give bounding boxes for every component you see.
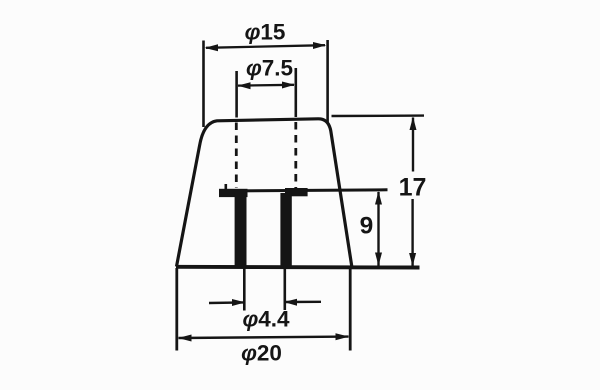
dim 9 arrow top [375, 191, 382, 204]
dim 17 arrow top [410, 117, 417, 130]
dim phi7.5 arrow left [238, 82, 251, 89]
pin wall right (solid post) [280, 193, 291, 266]
hidden hole line left (dashed) [235, 123, 238, 189]
dim phi20 arrow right [336, 333, 350, 340]
svg-text:9: 9 [360, 213, 374, 240]
svg-text:φ15: φ15 [245, 20, 286, 45]
dim phi7.5 line [238, 84, 294, 87]
dim phi4.4 right extension line [283, 268, 286, 310]
dim phi20 right extension line [349, 268, 352, 351]
dim phi20 arrow left [178, 335, 192, 342]
dim phi7.5 arrow right [282, 82, 295, 89]
tick at left cap end [225, 184, 228, 190]
hole top cap thick right [285, 188, 308, 196]
hole top line / extension to 9-dim [219, 190, 388, 191]
baseline [176, 265, 420, 270]
dim 17 line lower segment [411, 199, 413, 266]
svg-text:φ7.5: φ7.5 [246, 56, 293, 81]
dim 9 arrow bottom [375, 253, 382, 266]
dim phi20 line [179, 337, 349, 338]
dim 17 top extension line [332, 114, 425, 117]
dim phi15 line [206, 45, 325, 48]
dim phi4.4 arrow left [232, 299, 245, 306]
dim phi7.5 right extension line [294, 68, 297, 117]
hole top cap thick left [219, 189, 248, 197]
hidden hole line right (dashed) [294, 122, 297, 188]
dim phi15 right extension line [326, 40, 329, 123]
svg-text:17: 17 [399, 174, 427, 202]
dim phi4.4 line left [209, 301, 244, 304]
svg-text:φ4.4: φ4.4 [242, 307, 290, 332]
dim phi4.4 left extension line [243, 268, 246, 311]
pin wall left (solid post) [235, 193, 247, 266]
dim phi4.4 arrow right [284, 299, 297, 306]
dim phi20 left extension line [175, 268, 178, 351]
dim phi15 arrow left [205, 44, 219, 51]
dim phi15 arrow right [313, 42, 326, 49]
dim 17 line upper segment [412, 118, 414, 172]
dim phi15 left extension line [202, 41, 205, 128]
dim 9 line [377, 192, 379, 266]
dim 17 arrow bottom [409, 253, 416, 266]
body outline (trapezoid cross-section) [177, 119, 352, 267]
dim phi4.4 line right [285, 301, 321, 304]
svg-text:φ20: φ20 [241, 341, 282, 366]
dim phi7.5 left extension line [235, 71, 238, 118]
